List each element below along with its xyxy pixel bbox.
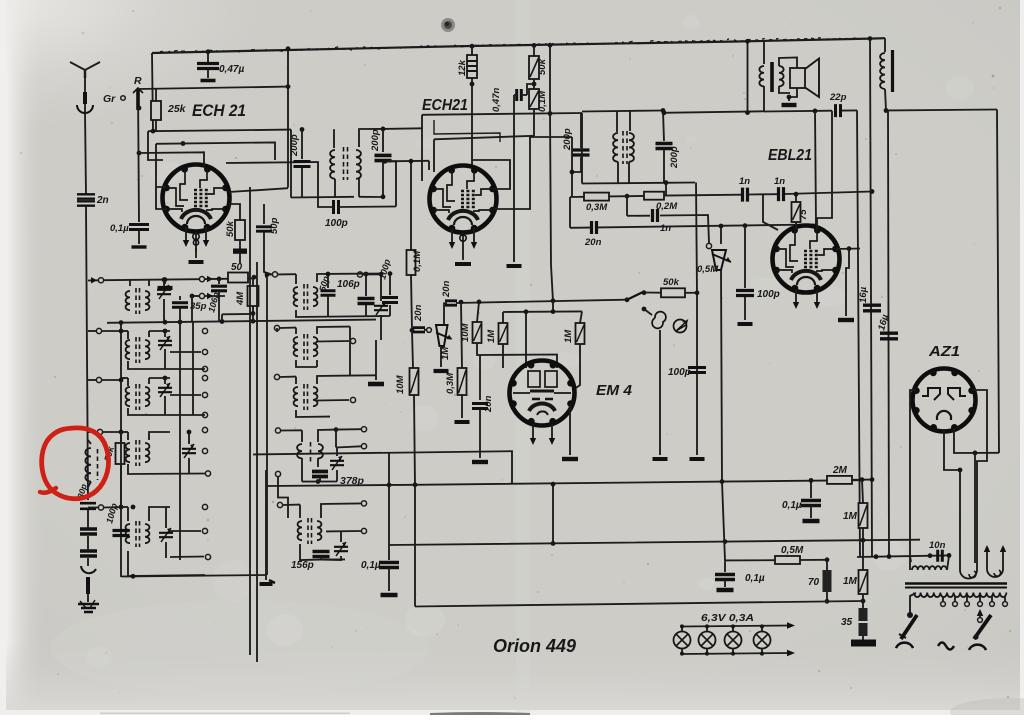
svg-text:200p: 200p [289,134,300,157]
wire EM4 grid box [477,302,479,322]
wire box D [139,152,204,166]
wire x975 down [974,453,976,563]
antenna [84,70,86,112]
vertical buses bank [120,323,122,577]
wire jack ground [659,330,661,455]
wire EBL cathode ground [846,249,849,316]
svg-text:EBL21: EBL21 [768,147,812,164]
svg-text:0,1µ: 0,1µ [782,500,802,511]
wire bus y483 [267,480,862,486]
ground left trim [163,277,168,282]
trimmer rb1 [357,272,362,277]
svg-text:100p: 100p [757,289,780,300]
secondary left lead [910,593,916,613]
heater arrows tube2 [451,228,453,242]
capacitor 0,1u e [724,560,726,572]
vertical x997 [997,110,999,454]
svg-text:0,1µ: 0,1µ [361,560,381,571]
wire tube2 anode right [493,136,530,209]
capacitor 0,1u d [810,480,812,498]
resistor 50k cathode [229,204,240,220]
vertical x696 [696,183,697,293]
capacitor 0,47n [527,84,534,95]
resistor 35 [859,608,868,636]
wire grid box B [148,131,163,160]
resistor 1M EM4 left [499,323,508,344]
capacitor 50p [263,204,265,224]
capacitor 156p [313,552,330,557]
resistor 0,1M screen [533,79,535,89]
wire tube1 lower left [156,187,167,209]
speaker [779,58,797,69]
svg-text:0,1M: 0,1M [412,250,423,272]
ground bottom mid [265,575,267,580]
coil row3 [121,377,128,379]
r-row1 T [295,274,297,284]
svg-text:156p: 156p [291,560,314,571]
wire EBL anode top [817,111,832,230]
capacitor 0,1u grid [129,225,149,230]
svg-text:50k: 50k [663,277,680,288]
wire R to AVC [138,87,288,89]
wire 0,5M net [722,482,725,561]
wire EM4 top pin drop [525,312,527,368]
r-row4 378p [275,428,280,433]
tube EBL21 [773,226,840,293]
svg-text:0,3M: 0,3M [445,372,456,394]
capacitor 0,1u b [388,453,390,560]
r-row2 [274,325,279,330]
wire AZ1 cathode [944,429,960,563]
wire tube1 left pins [156,144,166,187]
ground tube2 [462,250,464,260]
tube2 cathode stem [462,233,464,250]
capacitor 20n a [569,197,571,228]
ground speaker [782,103,797,107]
wire grid net y302 [456,300,627,303]
wire AZ1 pin2 [954,429,999,453]
capacitor 20n volume [410,328,415,333]
resistor 4M [248,286,259,306]
trimmer row1 [162,277,167,282]
capacitor 35p [179,296,181,300]
svg-text:1n: 1n [774,176,785,187]
potentiometer 1M volume [427,328,432,333]
resistor 25k [155,89,157,101]
wire row1 right contacts [199,293,204,298]
wire AZ1 right pin [972,390,987,563]
svg-text:6,3V 0,3A: 6,3V 0,3A [701,612,754,624]
svg-text:1n: 1n [660,223,671,234]
wire antenna down 2 [86,206,88,500]
wire tube2 right pins [472,160,510,189]
svg-text:1M: 1M [440,346,451,360]
IF1 core [343,147,345,180]
vertical x816 grid stopper [815,111,816,225]
wire bus left drop [152,53,153,131]
wire tube2 box left [428,161,430,170]
capacitor 30p [80,503,96,509]
IF1 secondary coil [356,150,361,179]
antenna coil [85,448,91,482]
svg-text:100p: 100p [668,367,691,378]
capacitor 20n c [479,355,481,400]
vertical x550 down [550,114,551,266]
svg-text:0,47n: 0,47n [491,88,502,112]
capacitor 16u a [863,305,881,311]
wire B+ to rectifier [886,110,997,111]
vertical x857 [857,110,860,556]
ground EM4 [569,404,571,455]
wire x553 down [552,484,554,543]
capacitor antenna series [80,529,97,534]
wire IF2 top to speaker net [663,111,764,113]
trimmer rb5 [334,547,348,551]
svg-text:12k: 12k [457,59,468,76]
resistor 1M b2 [862,540,864,570]
wire row4 out y453 [253,451,512,484]
tube1 cathode stem [195,232,197,252]
resistor 12k [470,44,475,49]
wire to earth hook [87,558,89,566]
capacitor 100p ant [113,531,130,536]
capacitor 106p rb [365,274,367,296]
wire bus drop x747 [747,41,749,113]
transformer core [905,582,1007,585]
ground earth symbol [78,604,99,612]
svg-text:75: 75 [798,209,809,220]
wire bottom bus bank [121,575,266,577]
wire osc net [571,137,573,196]
wire tube2 box top [421,115,423,181]
wire rb4 lower term [275,471,280,476]
capacitor 200p IF2 right [656,144,673,149]
svg-text:20n: 20n [584,237,602,248]
resistor 75 [795,194,797,202]
resistor 50k ant [116,443,125,464]
svg-text:1M: 1M [563,329,574,343]
svg-text:Orion 449: Orion 449 [493,636,576,656]
potentiometer 0,5M [706,243,711,248]
pickup jack [642,307,647,312]
wire y312 EM4 box [503,310,582,313]
wire rb5 bottom [321,558,345,560]
vertical x871 screen [870,39,872,557]
svg-text:20n: 20n [441,280,452,298]
dial lamps [682,626,790,627]
coil row1 T [129,280,131,286]
scan smudge bottom [430,712,530,715]
tube EM4 [510,361,575,426]
heater arrows tube1 [185,227,187,240]
IF1 primary coil [330,150,335,179]
earth hook [81,566,96,573]
wire x415 down [414,485,416,607]
coil row2 [88,330,96,332]
wire 100p pickup [696,293,698,455]
svg-text:1n: 1n [739,176,750,187]
IF transformer T1 box [290,130,292,198]
resistor 0,5M [775,556,800,564]
capacitor 20n b [444,303,447,325]
capacitor 10n [938,550,943,562]
U loop pair 2 heater taps [984,545,990,552]
svg-text:2M: 2M [832,465,848,476]
svg-text:16µ: 16µ [858,286,869,303]
tap arrow [977,609,983,616]
capacitor 1n b [779,187,784,201]
svg-text:ECH21: ECH21 [422,97,468,114]
mains tilde [938,643,954,650]
ground cathode x514 [513,95,515,262]
r-row3 [274,374,279,379]
wire box C [181,141,186,146]
resistor 0,1M agc [410,161,412,250]
svg-text:50k: 50k [225,220,236,237]
wire rb bus vertical [266,274,268,575]
wire 0,1M to left net [434,136,534,140]
svg-text:ECH 21: ECH 21 [192,101,246,120]
IF2 secondary coil [629,133,634,162]
svg-text:Gr: Gr [103,93,116,105]
svg-text:50p: 50p [269,217,280,234]
svg-text:R: R [134,75,142,87]
choke coil [884,38,886,52]
svg-text:0,1M: 0,1M [537,90,548,112]
wire tube1 right to 100p [226,162,318,203]
svg-text:4M: 4M [235,291,246,306]
ink blot [441,18,455,32]
power transformer primary [910,556,911,562]
heater arrows EBL21 [795,290,797,302]
wire B+ drop x288 [287,49,289,188]
svg-text:0,47µ: 0,47µ [219,64,244,75]
resistor 1M EM4 right [580,311,582,323]
svg-text:0,2M: 0,2M [656,201,678,212]
resistor 50k screen [532,43,537,48]
wire rb verticals [249,187,251,655]
resistor 50k switch [644,292,661,294]
svg-text:200p: 200p [370,129,381,152]
switch radio/pickup [627,292,644,300]
resistor 1M b1 [859,503,868,528]
svg-text:1M: 1M [486,329,497,343]
node R [138,88,139,222]
resistor 10M agc [412,330,413,368]
annotation red circle [42,428,109,499]
wire bus y541 [389,540,920,545]
capacitor 200p IF1 left [301,130,303,160]
capacitor 2n [77,194,95,198]
capacitor 100p EBL [744,226,746,288]
wire row4-5 bus [120,432,122,507]
mains switch left [901,615,917,639]
svg-text:AZ1: AZ1 [928,343,960,360]
node B+ top bus [152,38,885,53]
wire AVC x551 [551,265,553,302]
output transformer [763,41,765,65]
wire 10n net [857,555,949,557]
wire y314 [222,313,253,315]
svg-text:106p: 106p [337,279,360,290]
wire tube1 anode [229,188,288,192]
coil row5 [88,507,98,509]
svg-text:10M: 10M [395,374,406,394]
capacitor 200p IF1 right [382,129,384,152]
wire rb row1 to row3 [349,327,351,376]
wire EBL grid left [763,195,778,230]
capacitor 16u b [888,111,889,557]
wire IF1 out [385,161,396,206]
svg-text:20n: 20n [413,304,424,322]
wire IF2 to EBL grid [663,182,695,184]
svg-text:0,3M: 0,3M [586,202,608,213]
svg-text:50k: 50k [537,58,548,75]
capacitor 1n a [743,188,748,202]
IF transformer T2 box [582,111,663,112]
wire tube2 inner box [434,120,500,142]
wire right bank feed [266,274,272,276]
ground 50 res [233,249,247,253]
ground tube1 [195,248,197,258]
svg-text:200p: 200p [669,146,680,169]
heater arrows EM4 [532,424,534,438]
capacitor 100p coupling [334,200,339,214]
tube ECH21 V2 [430,166,497,233]
r-row5 156p [277,502,282,507]
wire screen bus y114 [422,113,582,115]
wire bus y601 [415,601,863,607]
capacitor 200p osc [580,113,582,148]
vertical x872 join [870,477,875,482]
mains switch right [974,615,991,639]
capacitor 378p fixed [301,458,303,482]
svg-text:0,1µ: 0,1µ [110,223,129,234]
vertical x266 [265,470,267,575]
svg-text:0,5M: 0,5M [697,264,719,275]
wire AZ1 left pin [910,390,916,570]
capacitor 1n c [626,196,628,216]
svg-text:100p: 100p [325,218,348,229]
svg-text:50: 50 [231,262,243,273]
tube ECH21 V1 [163,165,230,232]
wire EBL right pin [836,248,860,251]
wire bank top bus y279 [88,279,98,281]
capacitor 100p pickup [688,368,706,373]
svg-text:22p: 22p [829,92,847,103]
capacitor 22p [764,110,832,113]
svg-text:0,5M: 0,5M [781,545,804,556]
capacitor 106p bank [217,277,222,282]
wire 4M to bus [252,313,254,321]
ground 35 [851,640,876,647]
svg-text:70: 70 [808,577,820,588]
tube AZ1 [913,369,976,432]
capacitor 0,47u [206,49,211,54]
resistor 0,3M EM4 [461,302,462,368]
U loop pair 1 [960,563,977,579]
secondary taps [942,596,944,601]
svg-text:25k: 25k [167,103,187,115]
IF2 core [622,131,624,164]
wire x862 up [862,480,863,503]
wire grid box A [148,130,291,132]
wire y196 net [570,196,584,198]
switch contact row1 [199,277,204,282]
resistor 2M [827,476,852,484]
wire y114 drop to 200p col [549,45,551,113]
trimmer 378p [330,461,344,465]
svg-text:20n: 20n [483,395,494,413]
coil row4 [88,431,97,433]
svg-text:10n: 10n [929,540,946,551]
wire antenna down [85,112,86,194]
ground 100p pickup [690,457,705,461]
secondary winding [914,593,1006,598]
svg-text:1M: 1M [843,511,858,522]
svg-text:35: 35 [841,617,853,628]
svg-text:EM 4: EM 4 [596,382,633,399]
svg-text:0,1µ: 0,1µ [745,573,765,584]
wire pot down [720,226,722,244]
wire bank bus y321 [107,320,376,323]
ground rb [375,340,377,375]
IF2 primary coil [613,133,618,162]
svg-text:1M: 1M [843,576,858,587]
wire 10M bottom [477,343,557,368]
wire rb left col [276,328,278,332]
svg-text:2n: 2n [96,195,109,206]
resistor 70 [826,560,828,570]
